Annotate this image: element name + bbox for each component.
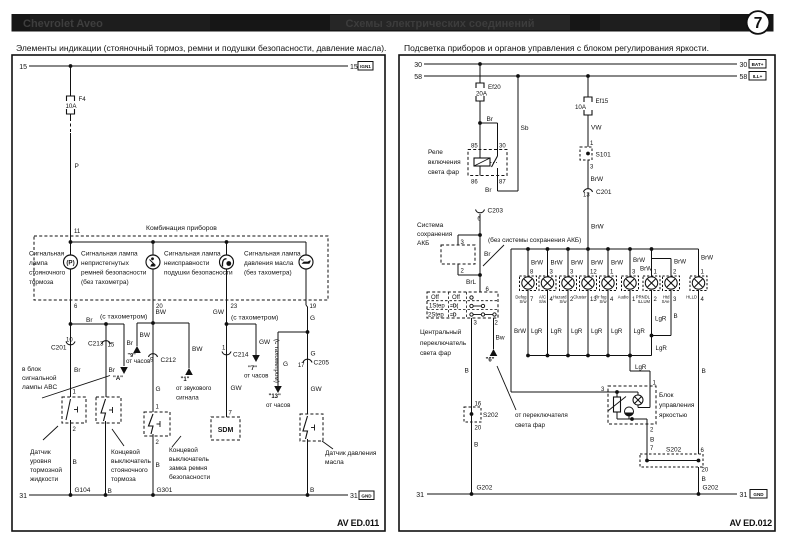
svg-text:Комбинация приборов: Комбинация приборов	[146, 224, 217, 232]
svg-text:GW: GW	[231, 385, 243, 392]
svg-text:85: 85	[471, 144, 478, 150]
ground node parking brake switch	[104, 493, 108, 497]
svg-text:сигнала: сигнала	[176, 395, 199, 402]
warning lamp airbag	[226, 242, 228, 255]
svg-text:Блок: Блок	[659, 392, 674, 399]
svg-text:2Step: 2Step	[428, 312, 444, 318]
relay coil	[479, 150, 481, 159]
svg-text:(P): (P)	[66, 260, 74, 267]
fuse Ef20 20A	[476, 83, 484, 88]
node junction GW branch	[225, 322, 229, 326]
svg-text:P: P	[75, 163, 79, 170]
svg-text:LgR: LgR	[551, 328, 563, 335]
wire Sb from relay contact 87 to bus 58	[517, 76, 519, 191]
svg-text:(без тахометра): (без тахометра)	[81, 278, 129, 286]
warning lamp oil pressure	[305, 242, 307, 255]
bus 15 wire	[29, 65, 348, 67]
connector C214 pin 1	[226, 324, 228, 417]
svg-text:"13": "13"	[269, 394, 282, 400]
svg-text:Сигнальная лампа: Сигнальная лампа	[244, 251, 301, 258]
svg-text:BW: BW	[192, 346, 203, 353]
svg-text:безопасности: безопасности	[169, 473, 210, 481]
svg-text:Off: Off	[431, 295, 439, 301]
svg-text:стояночного: стояночного	[111, 467, 148, 474]
svg-text:в блок: в блок	[22, 365, 41, 373]
svg-text:BrW: BrW	[640, 266, 652, 273]
bus 30 wire	[424, 63, 737, 65]
right panel border	[399, 55, 775, 531]
svg-text:Br: Br	[485, 187, 492, 194]
ground node oil pressure sensor	[306, 493, 310, 497]
svg-text:10: 10	[66, 338, 73, 344]
svg-text:BAT+: BAT+	[752, 62, 764, 67]
left panel border	[12, 55, 385, 531]
svg-text:BW: BW	[156, 309, 167, 316]
svg-text:BrW: BrW	[611, 260, 623, 267]
svg-text:яркостью: яркостью	[659, 412, 687, 419]
svg-text:BrW: BrW	[633, 257, 645, 264]
svg-text:Cluster: Cluster	[573, 295, 587, 300]
svg-text:Chevrolet Aveo: Chevrolet Aveo	[23, 18, 103, 30]
svg-text:от часов: от часов	[266, 402, 291, 409]
svg-text:BrL: BrL	[466, 279, 477, 286]
svg-text:B: B	[674, 313, 678, 320]
node on bus 30 at fuse Ef20	[478, 62, 482, 66]
node junction on bus 15	[69, 64, 73, 68]
ground G202 right	[697, 492, 701, 496]
dimmer lamp	[633, 395, 643, 405]
svg-text:Элементы индикации (стояночный: Элементы индикации (стояночный тормоз, р…	[16, 43, 386, 53]
svg-text:GW: GW	[259, 339, 271, 346]
svg-text:C205: C205	[314, 360, 330, 367]
svg-text:30: 30	[740, 62, 748, 69]
svg-text:15: 15	[108, 343, 115, 349]
svg-text:G202: G202	[477, 485, 493, 492]
svg-text:тормоза: тормоза	[111, 476, 136, 483]
relay contact	[497, 150, 499, 157]
svg-text:тормозной: тормозной	[30, 466, 62, 474]
svg-text:C212: C212	[161, 357, 177, 364]
illumination lamp heated seat	[663, 276, 680, 291]
svg-text:Br: Br	[86, 317, 93, 324]
svg-text:12: 12	[590, 270, 597, 276]
svg-text:31: 31	[350, 493, 358, 500]
lamp return wires LgR	[527, 296, 529, 356]
illumination lamp A/C switch	[547, 249, 549, 276]
wire Br below C203	[479, 214, 481, 292]
svg-text:(с тахометром): (с тахометром)	[100, 314, 147, 321]
svg-text:S/w: S/w	[539, 299, 547, 304]
svg-text:G: G	[311, 351, 316, 358]
svg-text:Ef20: Ef20	[488, 84, 501, 91]
svg-text:Концевой: Концевой	[111, 448, 140, 456]
svg-text:BrW: BrW	[591, 176, 605, 183]
bus 58 wire	[424, 75, 737, 77]
svg-text:10A: 10A	[65, 103, 77, 110]
svg-text:"7": "7"	[248, 366, 257, 372]
svg-text:BrW: BrW	[551, 260, 563, 267]
svg-text:Подсветка приборов и органов у: Подсветка приборов и органов управления …	[404, 43, 709, 53]
node on bus 58 at fuse Ef15	[586, 74, 590, 78]
svg-text:(без тахометра): (без тахометра)	[244, 269, 292, 277]
svg-text:масла: масла	[325, 459, 344, 466]
arrow from clock into BW net	[136, 323, 138, 346]
illumination return bus LgR	[528, 355, 652, 357]
svg-text:ILLUM: ILLUM	[638, 299, 651, 304]
wire LgR from return bus to dimmer pin 1	[628, 354, 632, 358]
wire from bus 15 to fuse F4	[70, 66, 72, 96]
illumination lamp hazard switch	[567, 249, 569, 276]
svg-text:"A": "A"	[113, 376, 123, 382]
svg-text:Br: Br	[484, 251, 491, 258]
illumination lamp defog switch	[527, 249, 529, 276]
svg-text:15: 15	[19, 64, 27, 71]
cluster internal bus wire	[71, 241, 307, 243]
ground G301	[151, 493, 155, 497]
svg-text:"6": "6"	[486, 358, 495, 364]
svg-text:тормоза: тормоза	[29, 279, 54, 286]
illumination lamp audio	[629, 249, 631, 276]
node junction Br branch	[69, 322, 73, 326]
central light switch box	[427, 292, 498, 318]
illumination feed bus BrW	[511, 248, 699, 250]
svg-text:LgR: LgR	[611, 328, 623, 335]
svg-text:S101: S101	[596, 152, 612, 159]
svg-text:C213: C213	[88, 341, 104, 348]
svg-text:LgR: LgR	[634, 328, 646, 335]
svg-text:управления: управления	[659, 402, 695, 409]
connector C201 pin 13	[584, 189, 593, 192]
ground G202 left	[470, 492, 474, 496]
wire jog to Htd seat lamp	[651, 249, 653, 259]
svg-text:AV ED.011: AV ED.011	[337, 518, 379, 528]
svg-text:переключатель: переключатель	[420, 340, 467, 347]
svg-text:LgR: LgR	[635, 364, 647, 371]
svg-text:(с тахометром): (с тахометром)	[231, 315, 278, 322]
svg-text:от часов: от часов	[244, 373, 269, 380]
svg-text:20: 20	[702, 468, 709, 474]
label Датчик давления масла with pointer	[322, 441, 333, 449]
wire with тахометром note to clock 13	[277, 332, 279, 386]
svg-text:Сигнальная: Сигнальная	[29, 251, 65, 258]
wire to HLLD lamp	[698, 249, 700, 276]
svg-text:G104: G104	[75, 487, 91, 494]
svg-text:S/w: S/w	[520, 299, 528, 304]
svg-text:S/w: S/w	[560, 299, 568, 304]
node on cluster bus at lamp 2	[151, 240, 155, 244]
svg-text:Схемы электрических соединений: Схемы электрических соединений	[345, 18, 534, 30]
svg-text:G: G	[156, 386, 161, 393]
wire from bus 58 to fuse Ef15	[587, 76, 589, 97]
svg-text:B: B	[465, 368, 469, 375]
label Концевой выключатель стояночного тормоза with pointer	[112, 429, 124, 446]
wire B from S202 to ground right	[698, 467, 700, 494]
svg-text:B: B	[650, 437, 654, 444]
svg-text:давления масла: давления масла	[244, 260, 294, 267]
nodes on illumination feed bus	[526, 247, 530, 251]
svg-text:LgR: LgR	[591, 328, 603, 335]
svg-text:Br: Br	[109, 367, 116, 374]
svg-text:BrW: BrW	[591, 260, 603, 267]
headlight relay box	[468, 150, 507, 176]
wire B from HLLD lamp down	[698, 296, 700, 454]
svg-text:замка ремня: замка ремня	[169, 465, 208, 472]
svg-text:от звукового: от звукового	[176, 385, 212, 392]
wire BW branch bar	[137, 322, 189, 324]
svg-text:20: 20	[475, 426, 482, 432]
svg-text:Off: Off	[452, 295, 460, 301]
connector C205 pin 17	[307, 332, 309, 414]
svg-text:23: 23	[231, 304, 238, 310]
svg-text:выключатель: выключатель	[169, 456, 210, 463]
fuse F4 10A	[67, 96, 75, 101]
instrument cluster box Комбинация приборов	[34, 236, 328, 300]
svg-text:SDM: SDM	[218, 427, 234, 434]
svg-text:(без системы сохранения АКБ): (без системы сохранения АКБ)	[488, 236, 581, 244]
node junction at C213 branch	[104, 322, 108, 326]
svg-text:BrW: BrW	[571, 260, 583, 267]
label Датчик уровня тормозной жидкости with pointer	[43, 426, 58, 440]
svg-text:Br: Br	[74, 367, 81, 374]
node on bus 58 at Sb wire	[516, 74, 520, 78]
node junction G branch	[306, 330, 310, 334]
svg-text:S202: S202	[666, 447, 682, 454]
svg-text:58: 58	[740, 74, 748, 81]
wire B from oil pressure sensor to ground	[307, 439, 309, 495]
ground G104	[69, 493, 73, 497]
svg-text:LgR: LgR	[571, 328, 583, 335]
node junction to relay contact	[478, 121, 482, 125]
wire Br to node A arrow	[123, 324, 125, 366]
svg-text:13: 13	[583, 193, 590, 199]
warning lamp seat belt	[152, 242, 154, 255]
svg-text:BrW: BrW	[674, 259, 686, 266]
svg-text:Sb: Sb	[521, 125, 529, 132]
svg-text:30: 30	[499, 144, 506, 150]
svg-text:Центральный: Центральный	[420, 328, 462, 336]
parking brake switch	[96, 397, 121, 423]
dimmer entry wire pin 3	[511, 391, 638, 393]
svg-text:Audio: Audio	[618, 295, 629, 300]
svg-text:=D: =D	[450, 312, 457, 318]
svg-text:31: 31	[19, 493, 27, 500]
svg-text:подушки безопасности: подушки безопасности	[164, 269, 233, 277]
wire BrW down to dimmer pin 3	[510, 249, 512, 392]
illumination lamp rear fog switch	[607, 249, 609, 276]
svg-text:S/w: S/w	[600, 299, 608, 304]
svg-text:выключатель: выключатель	[111, 458, 152, 465]
header bar	[12, 14, 774, 32]
svg-text:(с тахометром): (с тахометром)	[273, 339, 280, 383]
svg-text:C201: C201	[596, 189, 612, 196]
label Концевой выключатель замка ремня безопасности with pointer	[172, 436, 181, 447]
wire VW from fuse Ef15	[587, 115, 589, 147]
svg-text:LgR: LgR	[655, 316, 667, 323]
wire Br from pin 6	[70, 300, 72, 397]
svg-text:сигнальной: сигнальной	[22, 374, 57, 382]
fuse Ef15 10A	[584, 97, 592, 102]
connector C201 pin 10	[66, 342, 75, 345]
node on cluster bus at lamp 1	[69, 240, 73, 244]
svg-text:ILL+: ILL+	[753, 74, 763, 79]
wire B from brake fluid sensor to ground	[70, 423, 72, 495]
node A arrow to ABS lamp block	[120, 367, 128, 374]
dimmer photo sensor	[625, 407, 634, 416]
svg-text:включения: включения	[428, 159, 461, 166]
svg-text:G202: G202	[703, 485, 719, 492]
svg-text:HLLD: HLLD	[686, 295, 697, 300]
arrow from horn into BW net	[188, 323, 190, 368]
svg-text:лампа: лампа	[29, 260, 48, 267]
node 6 arrow off page	[490, 349, 498, 356]
oil pressure sensor switch	[300, 414, 323, 441]
svg-text:неисправности: неисправности	[164, 260, 210, 267]
svg-text:C214: C214	[233, 352, 249, 359]
svg-text:C203: C203	[488, 208, 504, 215]
battery saver box	[441, 245, 475, 264]
warning lamp parking brake (P)	[70, 236, 72, 255]
svg-text:1Step: 1Step	[429, 304, 445, 310]
svg-text:15: 15	[350, 64, 358, 71]
svg-text:10A: 10A	[575, 104, 587, 111]
svg-text:11: 11	[74, 229, 81, 235]
illumination lamp HLLD	[690, 276, 707, 291]
svg-text:AV ED.012: AV ED.012	[729, 518, 772, 528]
dimmer internal wires	[649, 386, 651, 408]
svg-text:от переключателя: от переключателя	[515, 412, 568, 419]
svg-text:31: 31	[416, 492, 424, 499]
svg-text:=D(: =D(	[450, 304, 459, 310]
label от переключателя света фар with pointer	[497, 366, 516, 410]
wire BrW from S101 to C201	[587, 160, 589, 189]
wire BW from pin 20	[152, 300, 154, 323]
svg-text:B: B	[474, 442, 478, 449]
svg-text:7: 7	[754, 15, 763, 32]
svg-text:от часов: от часов	[126, 358, 151, 365]
illumination lamp PRNDL	[651, 249, 653, 276]
wire GW from pin 23	[226, 300, 228, 324]
svg-text:"1": "1"	[181, 377, 190, 383]
svg-text:LgR: LgR	[656, 345, 668, 352]
node on cluster bus at lamp 3	[225, 240, 229, 244]
svg-text:B: B	[310, 487, 314, 494]
svg-text:SAe: SAe	[662, 299, 671, 304]
svg-text:Сигнальная лампа: Сигнальная лампа	[164, 251, 221, 258]
svg-text:B: B	[73, 459, 77, 466]
svg-text:B: B	[702, 476, 706, 483]
dimmer potentiometer	[614, 397, 621, 412]
svg-text:BrW: BrW	[701, 255, 713, 262]
svg-text:86: 86	[471, 180, 478, 186]
svg-text:непристегнутых: непристегнутых	[81, 260, 130, 267]
svg-text:света фар: света фар	[420, 350, 451, 357]
svg-text:лампы ABC: лампы ABC	[22, 384, 58, 391]
svg-text:30: 30	[414, 62, 422, 69]
svg-text:Датчик давления: Датчик давления	[325, 450, 377, 457]
svg-text:уровня: уровня	[30, 458, 51, 465]
node junction battery saver pin 3	[478, 233, 482, 237]
wire B from parking brake switch to ground	[105, 421, 107, 495]
svg-text:S202: S202	[483, 412, 499, 419]
svg-text:31: 31	[740, 492, 748, 499]
svg-text:B: B	[108, 488, 112, 495]
svg-text:BW: BW	[140, 332, 151, 339]
connector C213 pin 15	[105, 324, 107, 397]
svg-text:АКБ: АКБ	[417, 240, 429, 247]
svg-text:BrW: BrW	[531, 260, 543, 267]
svg-text:IGN1: IGN1	[360, 64, 371, 69]
svg-text:Br: Br	[127, 340, 134, 347]
svg-text:жидкости: жидкости	[30, 476, 59, 483]
svg-text:ремней безопасности: ремней безопасности	[81, 269, 147, 277]
svg-text:B: B	[156, 462, 160, 469]
svg-text:19: 19	[310, 304, 317, 310]
svg-text:GND: GND	[753, 492, 764, 497]
wire Bw from light switch pin 2 to arrow 6	[493, 318, 495, 349]
svg-text:Bw: Bw	[496, 335, 505, 342]
wire Br from fuse Ef20	[479, 101, 481, 150]
svg-text:58: 58	[414, 74, 422, 81]
svg-text:G: G	[310, 315, 315, 322]
svg-text:87: 87	[499, 180, 506, 186]
svg-text:BrW: BrW	[514, 328, 526, 335]
svg-text:F4: F4	[79, 96, 87, 103]
svg-text:VW: VW	[591, 125, 602, 132]
svg-text:B: B	[702, 368, 706, 375]
svg-text:Реле: Реле	[428, 149, 443, 156]
svg-text:стояночного: стояночного	[29, 270, 66, 277]
node junction BrL	[478, 273, 482, 277]
svg-text:Датчик: Датчик	[30, 449, 51, 456]
connector C203 pin 6	[476, 210, 485, 213]
svg-text:сохранения: сохранения	[417, 231, 453, 238]
svg-text:Br: Br	[487, 116, 494, 123]
page number circle 7	[747, 11, 770, 34]
svg-text:GND: GND	[361, 494, 372, 499]
return wires of PRNDL and heated seat lamps	[651, 296, 653, 356]
svg-text:G301: G301	[157, 487, 173, 494]
svg-text:LgR: LgR	[531, 328, 543, 335]
svg-text:света фар: света фар	[428, 169, 459, 176]
svg-text:Сигнальная лампа: Сигнальная лампа	[81, 251, 138, 258]
wire from bus 30 to fuse Ef20	[479, 64, 481, 83]
wire B from light switch pin 3 to ground	[471, 318, 473, 494]
arrow to clock 7	[255, 324, 257, 355]
wire BrW from C201 to lamp bus	[587, 193, 589, 249]
wire P from fuse F4 to instrument cluster pin 11	[70, 114, 72, 118]
svg-text:17: 17	[298, 363, 305, 369]
svg-text:C201: C201	[51, 345, 67, 352]
svg-text:света фар: света фар	[515, 422, 545, 429]
connector C212 pin 9	[152, 323, 154, 412]
svg-text:GW: GW	[213, 309, 225, 316]
svg-text:20A: 20A	[476, 91, 488, 98]
svg-text:BrW: BrW	[591, 224, 605, 231]
svg-text:GW: GW	[311, 386, 323, 393]
illumination lamp cluster	[587, 249, 589, 276]
svg-text:Концевой: Концевой	[169, 446, 198, 454]
wire G from pin 19	[305, 300, 307, 305]
wire B from seat belt switch to ground	[152, 436, 154, 495]
svg-text:G: G	[283, 361, 288, 368]
svg-text:Ef15: Ef15	[596, 98, 609, 105]
svg-text:Система: Система	[417, 222, 444, 229]
